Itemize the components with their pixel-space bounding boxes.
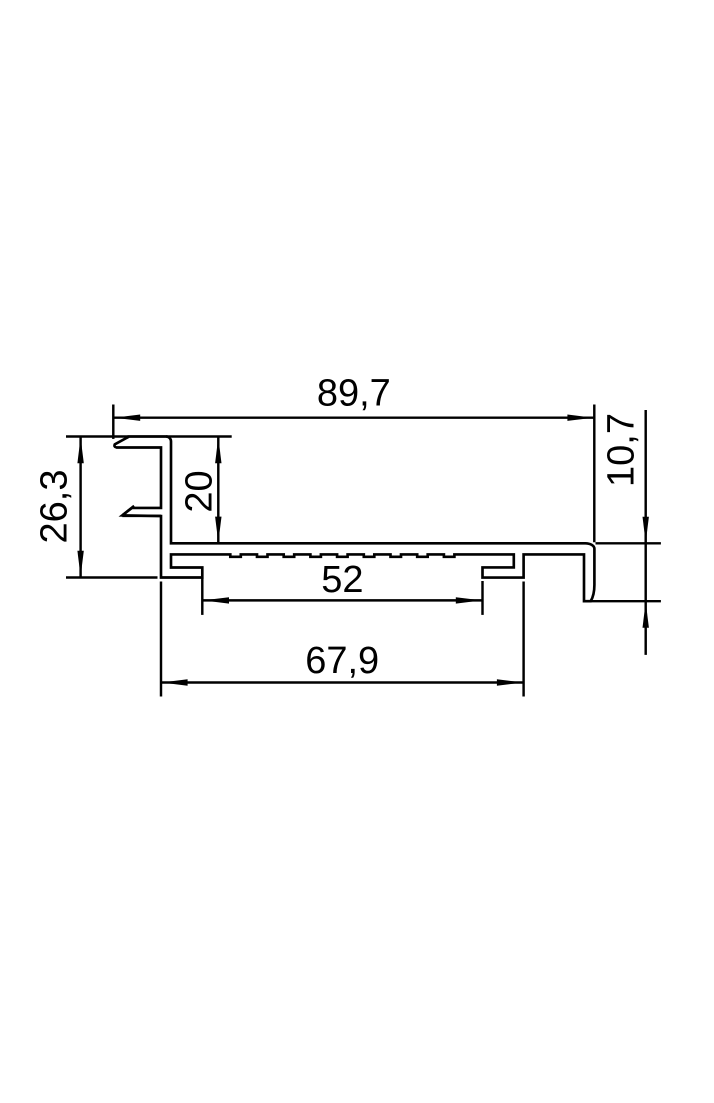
- dimension 67,9 : dimension line: [161, 681, 523, 683]
- dimension 89,7 : left extension line: [112, 405, 114, 439]
- svg-text:10,7: 10,7: [601, 413, 643, 487]
- dimension 52 : right extension line: [481, 581, 483, 615]
- dimension 67,9 : right extension line: [522, 582, 524, 697]
- dimension 10,7 : dimension line: [644, 410, 646, 655]
- dimension 10,7 : lower arrowhead (points up): [643, 602, 649, 628]
- svg-text:20: 20: [179, 470, 221, 512]
- barb chamfer spur (drafting overshoot): [123, 506, 134, 515]
- svg-text:52: 52: [321, 559, 363, 601]
- dimension 20 : top arrowhead: [215, 437, 221, 463]
- dimension 52 : left arrowhead: [203, 597, 229, 603]
- dimension 52 : left extension line: [201, 578, 203, 615]
- dimension 26,3 : bottom arrowhead: [77, 551, 83, 577]
- dimension 52 : dimension line: [203, 599, 483, 601]
- dimension 26,3 : top extension line: [66, 435, 128, 437]
- dimension 26,3 : dimension line: [79, 437, 81, 577]
- svg-text:89,7: 89,7: [317, 373, 391, 415]
- dimension 89,7 : right arrowhead: [567, 415, 593, 421]
- dimension 26,3 : top arrowhead: [77, 437, 83, 463]
- dimension 26,3 : bottom extension line: [66, 576, 158, 578]
- dimension 67,9 : left arrowhead: [162, 679, 188, 685]
- dimension 67,9 : right arrowhead: [497, 679, 523, 685]
- dimension 10,7 : bottom extension line: [592, 600, 661, 602]
- barb bottom edge: [122, 515, 161, 518]
- dimension 89,7 : left arrowhead: [114, 415, 140, 421]
- dimension 10,7 : upper arrowhead (points down): [643, 517, 649, 543]
- profile outline (aluminium extrusion cross-section): [114, 437, 594, 602]
- dimension 52 : right arrowhead: [456, 597, 482, 603]
- dimension 20 : bottom arrowhead: [215, 517, 221, 543]
- dimension 89,7 : dimension line: [113, 416, 594, 418]
- dimension 10,7 : top extension line: [596, 542, 661, 544]
- dimension 20 : top extension line: [166, 435, 232, 437]
- svg-text:67,9: 67,9: [305, 640, 379, 682]
- dimension 20 : dimension line: [217, 437, 219, 543]
- svg-text:26,3: 26,3: [33, 470, 75, 544]
- dimension 67,9 : left extension line: [160, 582, 162, 697]
- dimension 89,7 : right extension line: [593, 405, 595, 543]
